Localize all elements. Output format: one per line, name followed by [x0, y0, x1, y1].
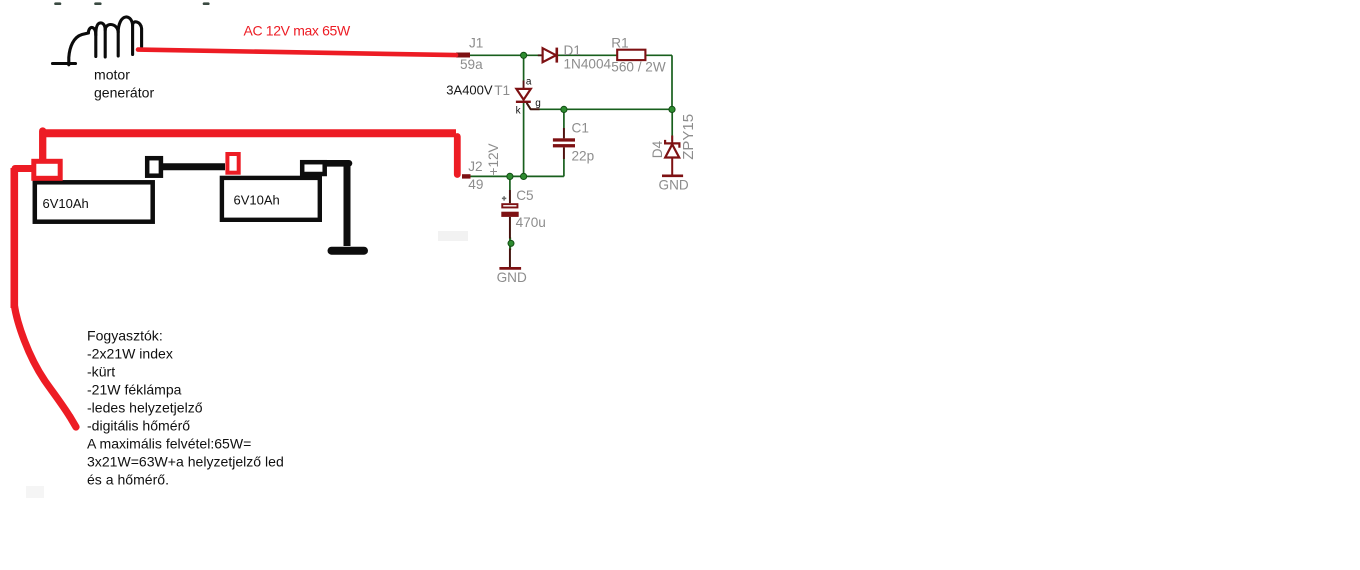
svg-text:J2: J2 [468, 159, 482, 174]
svg-text:-kürt: -kürt [87, 364, 115, 380]
svg-text:GND: GND [497, 270, 527, 285]
svg-text:560 / 2W: 560 / 2W [611, 59, 666, 74]
svg-text:AC 12V max 65W: AC 12V max 65W [244, 22, 351, 38]
svg-text:1N4004: 1N4004 [564, 57, 612, 72]
svg-text:T1: T1 [494, 83, 510, 98]
svg-text:motor: motor [94, 67, 130, 83]
svg-text:59a: 59a [460, 57, 483, 72]
svg-text:Fogyasztók:: Fogyasztók: [87, 328, 163, 344]
svg-text:-21W féklámpa: -21W féklámpa [87, 382, 182, 398]
svg-text:6V10Ah: 6V10Ah [43, 196, 89, 211]
svg-text:generátor: generátor [94, 85, 154, 101]
svg-text:6V10Ah: 6V10Ah [234, 192, 280, 207]
svg-text:és a hőmérő.: és a hőmérő. [87, 472, 169, 488]
svg-text:3x21W=63W+a helyzetjelző led: 3x21W=63W+a helyzetjelző led [87, 454, 284, 470]
svg-text:C5: C5 [516, 188, 533, 203]
svg-text:-digitális hőmérő: -digitális hőmérő [87, 418, 190, 434]
svg-text:J1: J1 [469, 35, 483, 50]
svg-text:g: g [535, 98, 541, 109]
svg-text:49: 49 [468, 177, 483, 192]
svg-text:-ledes helyzetjelző: -ledes helyzetjelző [87, 400, 203, 416]
svg-text:D4: D4 [650, 140, 665, 158]
svg-text:-2x21W index: -2x21W index [87, 346, 173, 362]
svg-text:a: a [526, 76, 532, 87]
svg-text:ZPY15: ZPY15 [680, 114, 697, 160]
svg-text:R1: R1 [611, 36, 628, 51]
svg-text:470u: 470u [516, 215, 546, 230]
svg-text:C1: C1 [572, 121, 589, 136]
svg-text:3A400V: 3A400V [446, 82, 493, 97]
svg-text:GND: GND [659, 178, 689, 193]
svg-text:A maximális felvétel:65W=: A maximális felvétel:65W= [87, 436, 251, 452]
svg-text:+12V: +12V [486, 143, 501, 175]
svg-text:22p: 22p [572, 149, 595, 164]
